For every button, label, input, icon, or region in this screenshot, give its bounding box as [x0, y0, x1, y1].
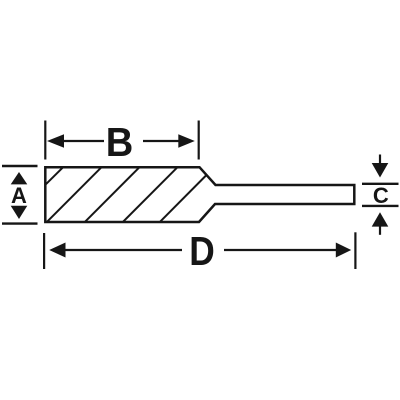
dimension C top arrowhead	[372, 163, 389, 178]
dimension B right extension bar	[198, 121, 200, 160]
dimension C top arrow stem	[379, 155, 381, 165]
svg-text:B: B	[106, 119, 134, 165]
hatch line 3	[85, 167, 140, 222]
dimension C top tick	[362, 183, 399, 185]
dimension A top tick	[2, 165, 38, 167]
svg-text:A: A	[11, 183, 27, 208]
dimension A up triangle	[11, 172, 28, 184]
svg-text:D: D	[189, 228, 215, 274]
hatch line 1 (top-left partial)	[45, 167, 63, 185]
dimension B left arrowhead	[47, 134, 64, 148]
hatch line 5 (ends on taper)	[160, 176, 206, 222]
dimension D arrow line right segment	[224, 249, 337, 251]
dimension D right extension bar	[354, 232, 356, 269]
dimension A down triangle	[11, 206, 28, 219]
dimension A bottom tick	[2, 222, 38, 224]
dimension D left arrowhead	[49, 243, 65, 258]
dimension C bottom arrow stem	[379, 226, 381, 235]
svg-text:C: C	[373, 183, 389, 208]
dimension D arrow line left segment	[64, 249, 182, 251]
dimension B arrow line right segment	[143, 140, 180, 142]
dimension D left extension bar	[43, 233, 45, 269]
dimension B right arrowhead	[178, 134, 195, 148]
dimension C bottom tick	[362, 205, 399, 207]
dimension B arrow line left segment	[62, 140, 104, 142]
hatch line 2	[47, 167, 102, 222]
dimension C bottom arrowhead	[372, 212, 389, 226]
dimension D right arrowhead	[336, 243, 351, 258]
dimension B left extension bar	[44, 121, 46, 160]
hatch line 4	[123, 167, 178, 222]
burr body outline (cut head + taper + shank)	[45, 167, 354, 222]
